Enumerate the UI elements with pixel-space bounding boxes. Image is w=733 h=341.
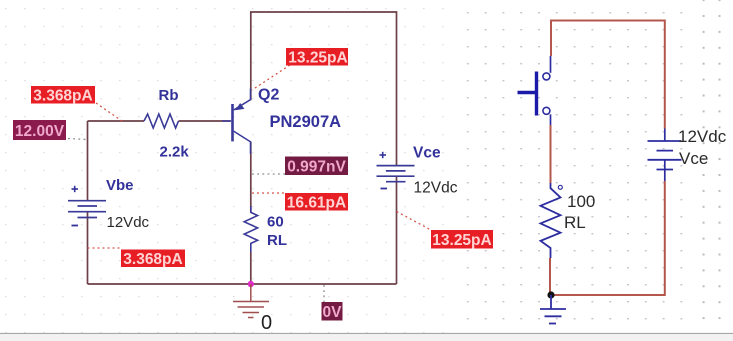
svg-text:60: 60 (267, 214, 284, 231)
current label 13.25pA (right) (431, 230, 493, 249)
svg-text:Vbe: Vbe (106, 177, 134, 194)
wire collector-top loop: emitter up, across top, down to Vce battery (251, 12, 397, 166)
label Vce (right) (679, 149, 708, 168)
ground 0 (left circuit) (233, 284, 269, 318)
wire left vertical (Vbe branch) (87, 121, 89, 284)
svg-text:Q2: Q2 (258, 87, 279, 104)
value 12Vdc (right) (678, 127, 727, 146)
wire bottom rail (88, 283, 397, 285)
label Rb (159, 87, 179, 104)
wire collector to RL (250, 142, 252, 212)
svg-text:13.25pA: 13.25pA (288, 50, 347, 67)
transistor Q2 (PNP PN2907A) (222, 89, 251, 155)
probe leader (13.25pA right) (397, 212, 431, 231)
ground (right circuit) (540, 295, 566, 324)
battery Vce (left, 12Vdc source) (377, 152, 415, 189)
value 12Vdc (Vbe) (107, 214, 150, 231)
resistor RL (right, 100) (541, 183, 563, 258)
svg-text:12.00V: 12.00V (15, 123, 65, 140)
probe leader (0.997nV) (252, 173, 285, 175)
wire base rail left of Rb (88, 120, 145, 122)
label Q2 (258, 87, 279, 104)
wire Vce battery bottom to bottom rail (396, 176, 398, 284)
current label 13.25pA (top) (286, 48, 348, 67)
probe leader (12.00V) (68, 139, 87, 140)
svg-text:12Vdc: 12Vdc (414, 180, 458, 197)
probe leader (13.25pA top) (252, 65, 290, 90)
voltage label 0.997nV (285, 157, 348, 176)
probe leader (3.368pA bottom) (88, 247, 122, 249)
current label 3.368pA (top) (31, 86, 95, 105)
svg-text:PN2907A: PN2907A (270, 113, 342, 131)
wire RL to ground junction (549, 258, 551, 295)
battery Vbe (12Vdc source) (68, 186, 106, 226)
probe leader (3.368pA top) (96, 103, 122, 121)
svg-text:2.2k: 2.2k (160, 144, 190, 161)
resistor RL (left, 60) (244, 206, 257, 252)
label RL (267, 232, 287, 249)
junction node (black) (547, 291, 554, 298)
probe leader (0V) (323, 285, 325, 302)
wire base rail Rb to Q2 base (179, 120, 231, 122)
svg-text:0.997nV: 0.997nV (287, 159, 346, 176)
svg-text:100: 100 (567, 192, 595, 211)
voltage label 0V (322, 302, 343, 321)
svg-text:12Vdc: 12Vdc (107, 214, 150, 231)
svg-text:Vce: Vce (679, 149, 708, 168)
label Vce (413, 145, 441, 162)
current label 3.368pA (bottom) (121, 250, 185, 269)
svg-text:16.61pA: 16.61pA (287, 195, 346, 212)
svg-text:3.368pA: 3.368pA (33, 88, 92, 105)
bottom separator bar (0, 334, 733, 341)
wire top rail (right circuit) (551, 21, 665, 129)
probe leader (16.61pA) (252, 192, 285, 194)
junction node (magenta) (248, 281, 254, 287)
wire RL to ground node (250, 252, 252, 284)
svg-text:0V: 0V (323, 304, 343, 321)
label Vbe (106, 177, 134, 194)
resistor Rb (144, 114, 179, 128)
svg-text:3.368pA: 3.368pA (123, 251, 182, 268)
svg-text:RL: RL (267, 232, 287, 249)
battery Vce (right, 12Vdc) (648, 129, 682, 182)
svg-text:12Vdc: 12Vdc (678, 127, 727, 146)
value PN2907A (270, 113, 342, 131)
svg-text:13.25pA: 13.25pA (432, 232, 491, 249)
value 12Vdc (Vce left) (414, 180, 458, 197)
value 60 (267, 214, 284, 231)
wire bottom rail (right circuit) (551, 181, 665, 295)
pushbutton switch (518, 56, 551, 125)
value 2.2k (160, 144, 190, 161)
net name 0 (261, 312, 272, 334)
wire switch to RL (550, 125, 552, 183)
label RL (right) (564, 213, 586, 232)
current label 16.61pA (285, 193, 348, 212)
svg-text:0: 0 (261, 312, 272, 334)
svg-text:Rb: Rb (159, 87, 179, 104)
svg-text:RL: RL (564, 213, 586, 232)
voltage label 12.00V (13, 120, 66, 140)
value 100 (right RL) (567, 192, 595, 211)
svg-text:Vce: Vce (413, 145, 441, 162)
